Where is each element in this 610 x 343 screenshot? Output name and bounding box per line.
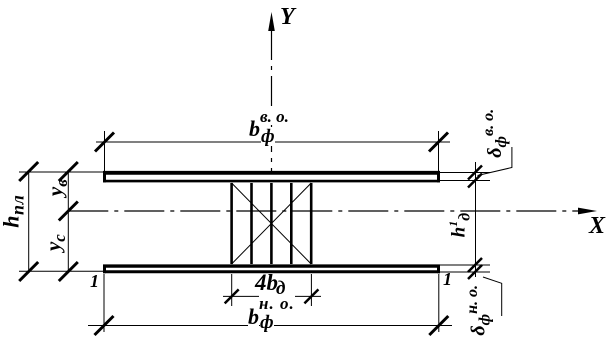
- h_pl dimension line (left outer): [28, 172, 30, 272]
- extension line h_pl bottom: [19, 270, 103, 272]
- web bar 4: [290, 183, 293, 264]
- web bar 1: [230, 183, 233, 264]
- label 4b_d: 4b: [255, 271, 278, 294]
- label delta_f n.o. (rotated): [465, 285, 494, 336]
- tick bottom dim left: [95, 316, 114, 335]
- label b_f top: sub f: [261, 127, 275, 146]
- tick 4b left: [225, 289, 239, 303]
- extension line h_pl top: [19, 171, 103, 173]
- double tick bottom flange b: [468, 265, 482, 279]
- bottom dimension line b_f n.o.: [88, 325, 452, 327]
- extension top flange right lower: [440, 180, 490, 182]
- extension line left top dim: [104, 131, 106, 171]
- extension bottom flange right lower: [440, 271, 490, 273]
- double tick top flange a: [468, 166, 482, 180]
- extension line right top dim: [438, 131, 440, 171]
- right vertical h_d line: [475, 162, 477, 277]
- label h_pl (rotated): [0, 195, 26, 228]
- label 4b_d: sub d: [276, 279, 285, 298]
- brace diagonal BL-TR: [232, 183, 312, 264]
- extension bottom flange right upper: [440, 264, 490, 266]
- extension top flange right upper: [440, 172, 490, 174]
- top flange plate: [103, 171, 440, 182]
- web bar 2: [250, 183, 253, 264]
- label b_f bottom: sup n.o.: [259, 295, 295, 312]
- extension line right bottom dim: [438, 274, 440, 332]
- 4b_d dimension line: [223, 295, 321, 297]
- tick top dim right: [429, 133, 448, 152]
- tick h_pl top: [19, 162, 38, 181]
- bottom flange plate: [103, 265, 440, 274]
- double tick bottom flange a: [468, 258, 482, 272]
- tick h_pl bottom: [19, 262, 38, 281]
- web bar 5: [310, 183, 313, 264]
- brace diagonal TL-BR: [232, 183, 312, 264]
- tick bottom dim right: [429, 316, 448, 335]
- tick y dim top: [59, 162, 78, 181]
- label y_c (rotated): [42, 234, 67, 251]
- double tick top flange b: [468, 174, 482, 188]
- X axis arrowhead: [578, 208, 597, 215]
- label y_v (rotated): [44, 179, 69, 196]
- tick 4b right: [304, 289, 318, 303]
- label X axis: [589, 214, 605, 238]
- tick y dim middle: [59, 202, 78, 221]
- web bar 3 (center): [270, 183, 273, 264]
- Y axis centerline: [271, 30, 273, 171]
- leader delta bottom: [483, 277, 502, 316]
- tick top dim left: [95, 133, 114, 152]
- X axis centerline: [68, 210, 580, 212]
- label b_f bottom: sub f: [260, 313, 274, 332]
- label b_f top: b: [249, 118, 260, 140]
- leader delta top: [478, 147, 512, 176]
- label delta_f v.o. (rotated): [481, 109, 510, 158]
- label b_f top: sup v.o.: [260, 108, 289, 125]
- label section mark 1 right: [443, 270, 452, 288]
- y_v / y_c dimension line (left inner): [67, 172, 69, 272]
- extension line 4b left: [231, 274, 233, 306]
- label b_f bottom: b: [248, 306, 259, 328]
- label Y axis: [280, 5, 295, 29]
- label section mark 1 left: [90, 272, 99, 290]
- extension line 4b right: [310, 274, 312, 306]
- Y axis arrowhead: [268, 12, 275, 31]
- top dimension line b_f v.o.: [96, 141, 450, 143]
- extension line left bottom dim: [103, 274, 105, 332]
- tick y dim bottom: [59, 262, 78, 281]
- label h_d1 (rotated): [447, 213, 473, 238]
